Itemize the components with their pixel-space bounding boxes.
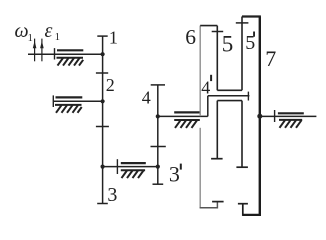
label 4' [201,75,212,98]
node shaft7 [257,114,262,119]
support S1 bar [57,49,83,51]
shaft top bar [97,35,107,37]
gear 5 left leg [216,26,218,91]
label 3' [169,162,182,187]
ring 7 bottom [243,214,261,216]
svg-text:ε: ε [45,20,53,42]
support S1 hatch [57,58,84,66]
label 5' [245,32,255,55]
wire input shaft [28,53,103,55]
wire carrier shaft [158,115,208,117]
svg-text:3: 3 [169,162,180,187]
svg-text:1: 1 [109,28,118,48]
gear 5 right leg [241,17,243,91]
node support2-shaft1 [101,99,105,103]
node gear3b-shaft4 [156,165,160,169]
ring 6 tooth [212,201,224,203]
bearing tick arm [247,92,249,101]
arrow omega [33,39,37,62]
shaft 1-2-3 vertical [102,36,104,203]
svg-text:6: 6 [185,25,196,49]
ring 6 top bar [200,25,217,27]
gear tick 3' [151,146,166,148]
svg-text:1: 1 [55,32,60,43]
support S2 bar [56,96,83,98]
label epsilon_1 [45,20,61,43]
shaft4 top bar [151,84,165,86]
wire support2 shaft [53,100,102,102]
gear 5 bottom bar [217,89,242,91]
planet left tooth [211,158,223,160]
arrow epsilon [40,39,44,62]
support S4 hatch [174,120,200,128]
wire carrier jog [207,96,209,117]
gear tick 2 [96,126,109,128]
support S3 hatch [121,170,145,178]
bearing tick S1 [54,48,56,59]
ring 6 bottom [200,202,218,209]
label omega_1 [15,20,33,44]
shaft4 bottom bar [153,183,164,185]
bearing tick S3 [116,159,118,174]
ring 7 tooth [238,203,248,205]
planet right leg [241,101,243,168]
shaft 7 vertical [259,17,261,215]
wire carrier arm 4 [208,95,250,97]
gear tick 6-5 [212,31,224,33]
ring 6 vertical [199,26,201,117]
support S4 bar [174,111,200,113]
wire output shaft [260,115,317,117]
shaft 4 vertical [157,85,159,184]
planet bracket top bar [217,100,242,102]
svg-text:3: 3 [107,184,117,206]
gear tick 5'-4 [236,22,249,24]
svg-text:ω: ω [15,20,29,42]
planet right tooth [236,166,248,168]
shaft bottom bar [97,203,108,205]
support S5 hatch [279,120,302,128]
gear tick 1 [96,72,108,74]
support S3 bar [121,162,146,164]
bearing tick S2 [52,95,54,107]
planet left leg [216,101,218,159]
ring 7 uptick [242,204,244,216]
bearing tick S5 [274,110,276,122]
svg-text:4: 4 [142,88,151,108]
support S2 hatch [55,105,82,113]
ring 5' top bar [242,15,261,17]
wire gear 3-3' shaft [103,166,158,168]
node carrier-shaft4 [156,114,160,118]
support S5 bar [278,112,304,114]
node gear3-shaft1 [101,165,105,169]
svg-text:1: 1 [28,33,33,44]
node input-shaft1 [101,52,105,56]
svg-text:5: 5 [222,31,234,56]
svg-text:4: 4 [201,77,210,97]
svg-text:2: 2 [106,75,115,95]
svg-text:7: 7 [265,46,276,71]
